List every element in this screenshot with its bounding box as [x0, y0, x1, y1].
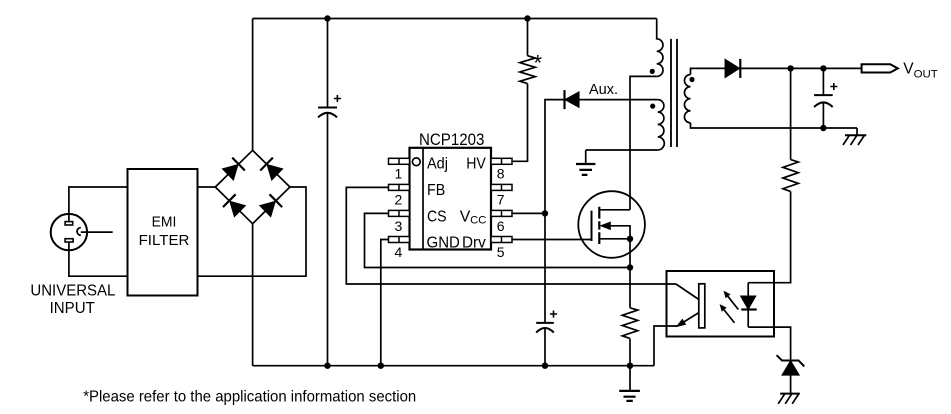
node CS sense junction [627, 264, 633, 270]
svg-text:*Please refer to the applicati: *Please refer to the application informa… [83, 389, 416, 406]
wire T1 aux bottom to ground [586, 149, 658, 151]
node T1 secondary polarity dot [689, 77, 694, 82]
svg-text:EMI: EMI [152, 214, 177, 230]
wire plug bottom to EMI filter [69, 242, 128, 276]
svg-text:7: 7 [497, 192, 505, 208]
diode D3 auxiliary [565, 90, 579, 109]
wire EMI filter to bridge left [198, 186, 216, 188]
ground bottom rail [619, 366, 640, 401]
U1 pin 5 stub [491, 237, 512, 243]
svg-text:1: 1 [395, 166, 403, 182]
ground aux winding [576, 150, 595, 175]
label EMI FILTER [139, 214, 190, 249]
svg-text:INPUT: INPUT [50, 300, 96, 317]
wire bottom ground rail [253, 365, 654, 367]
wire LED cathode to zener [748, 327, 790, 360]
node C1 bottom rail [324, 363, 330, 369]
node GND bottom rail [378, 363, 384, 369]
wire bridge plus to top rail [252, 19, 254, 152]
svg-text:CC: CC [470, 215, 486, 227]
optocoupler U2 [667, 271, 775, 337]
transformer T1 aux winding [658, 100, 665, 150]
svg-text:Aux.: Aux. [589, 82, 618, 98]
U1 pin 3 stub [389, 210, 410, 216]
resistor R1 HV startup [520, 56, 535, 84]
wire secondary top to output diode [691, 68, 726, 74]
node C2 bottom rail [542, 363, 548, 369]
terminal VOUT [862, 64, 898, 72]
wire T1 primary bottom to drain [630, 76, 657, 209]
wire C1 top [327, 19, 329, 108]
U1 pin 7 stub [491, 184, 512, 190]
wire D3 anode to aux winding [579, 99, 658, 101]
resistor R3 feedback divider [783, 160, 798, 192]
node output cap junction [820, 65, 826, 71]
svg-text:V: V [460, 208, 471, 225]
wire R1 to pin 8 [512, 84, 528, 162]
diode D2 output rectifier [725, 59, 740, 78]
label UNIVERSAL INPUT [30, 283, 115, 317]
U1 pin numbers [395, 166, 505, 260]
wire pin 5 Drv to gate [512, 239, 592, 241]
svg-text:*: * [534, 51, 543, 76]
wire C3 top [822, 68, 824, 95]
wire R2 bottom [629, 339, 631, 366]
U2 light arrow 2 [720, 304, 735, 323]
IC U1 NCP1203 [410, 148, 492, 250]
node T1 primary polarity dot [650, 69, 655, 74]
wire C1 bottom [327, 113, 329, 366]
label VOUT [903, 61, 938, 81]
wire Q1 source down [629, 239, 631, 308]
bridge diode D1c bottom-left [223, 194, 246, 217]
wire plug top to EMI filter [69, 187, 128, 222]
svg-text:FILTER: FILTER [139, 233, 190, 249]
node C3 bottom rail [820, 125, 826, 131]
label NCP1203 [419, 130, 485, 149]
capacitor C2 Vcc [536, 311, 557, 333]
U1 pin 4 stub [389, 237, 410, 243]
svg-text:2: 2 [395, 192, 403, 208]
resistor R2 sense [622, 308, 637, 339]
chassis ground zener [778, 394, 800, 404]
wire R1 top [527, 19, 529, 56]
svg-text:CS: CS [427, 208, 447, 225]
wire R3 bottom to LED anode [748, 192, 790, 283]
wire pin 4 GND to bottom rail [381, 240, 389, 366]
svg-text:NCP1203: NCP1203 [419, 130, 485, 149]
wire bridge minus to bottom rail [252, 223, 254, 366]
label R1 asterisk [534, 51, 543, 76]
svg-text:6: 6 [497, 218, 505, 234]
svg-text:HV: HV [466, 155, 486, 172]
node Q1 source junction [627, 236, 633, 242]
EMI filter block [128, 169, 198, 296]
capacitor C3 output [814, 83, 837, 107]
U1 pin 8 stub [491, 158, 512, 164]
wire R3 top [790, 68, 792, 159]
diode bridge edges [215, 150, 290, 223]
bulk capacitor C1 [318, 95, 341, 117]
U2 LED D4 [741, 283, 757, 327]
label Aux. [589, 82, 618, 98]
AC plug J1 [51, 214, 87, 250]
node Vcc junction [542, 210, 548, 216]
node R1 top rail [524, 15, 530, 21]
wire pin 6 Vcc [512, 212, 545, 214]
wire pin 3 CS to MOSFET source [365, 213, 631, 267]
svg-text:4: 4 [395, 244, 403, 260]
U1 pin 1 stub [389, 158, 410, 164]
svg-text:UNIVERSAL: UNIVERSAL [30, 283, 115, 300]
wire top DC rail [253, 18, 657, 20]
wire output node [740, 67, 861, 69]
transformer T1 core [671, 39, 677, 147]
svg-text:FB: FB [427, 182, 445, 199]
zener diode Z1 [777, 355, 805, 375]
U1 pin 2 stub [389, 184, 410, 190]
U1 pin 6 stub [491, 210, 512, 216]
wire U2 emitter to bottom rail [654, 326, 677, 366]
svg-text:Adj: Adj [427, 155, 448, 172]
bridge diode D1a top-left [222, 158, 245, 181]
bridge diode D1d bottom-right [259, 194, 282, 217]
U1 pin labels [427, 155, 487, 251]
wire EMI filter to bridge right [198, 187, 307, 276]
wire C2 bottom [544, 328, 546, 365]
svg-text:5: 5 [497, 244, 505, 260]
chassis ground output [843, 128, 866, 145]
svg-text:8: 8 [497, 166, 505, 182]
node output diode junction [787, 65, 793, 71]
svg-text:GND: GND [427, 235, 460, 252]
svg-text:Drv: Drv [462, 235, 486, 252]
bridge diode D1b top-right [260, 158, 283, 181]
svg-text:OUT: OUT [914, 69, 938, 81]
transformer T1 primary winding [657, 19, 663, 77]
MOSFET Q1 [578, 191, 645, 258]
node T1 aux polarity dot [650, 104, 655, 109]
wire D3 cathode to Vcc [545, 100, 565, 323]
node C1 top rail [324, 15, 330, 21]
wire Z1 to chassis ground [790, 375, 792, 394]
wire secondary bottom return [691, 123, 858, 128]
node R2 bottom rail [627, 363, 633, 369]
wire plug cord [81, 231, 113, 233]
wire pin 2 FB to optocoupler [346, 187, 676, 284]
U2 light arrow 1 [724, 291, 739, 310]
label application note [83, 389, 416, 406]
wire C3 bottom [822, 103, 824, 128]
transformer T1 secondary winding [684, 75, 690, 123]
U2 phototransistor [676, 284, 705, 328]
svg-text:3: 3 [395, 218, 403, 234]
